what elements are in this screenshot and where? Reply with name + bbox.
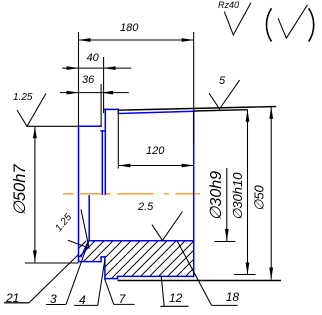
- svg-text:120: 120: [146, 145, 165, 157]
- arrow dia30h10 top: [246, 110, 250, 122]
- housing top surface / extension: [118, 107, 276, 111]
- arrow dia30h9 bottom: [225, 229, 229, 241]
- 18: [178, 242, 212, 306]
- arrow dia50 bottom: [269, 268, 273, 280]
- svg-text:5: 5: [219, 75, 226, 87]
- groove left wall: [101, 131, 103, 194]
- 1.25 top-left symbol: [17, 93, 46, 126]
- sleeve top surface: [118, 111, 193, 113]
- arrow 36 right outside: [101, 91, 113, 95]
- arrow dia50 top: [269, 107, 273, 119]
- dia50h7 dim line: [34, 126, 36, 262]
- dia50 right dim line: [270, 107, 272, 280]
- svg-text:3: 3: [50, 292, 57, 306]
- svg-text:1.25: 1.25: [13, 92, 33, 103]
- groove bottom: [101, 130, 105, 132]
- hatching of section: [19, 220, 260, 290]
- black context part lines: [118, 107, 282, 281]
- ext right x=193.7: [193, 32, 195, 144]
- sleeve bottom surface: [118, 275, 194, 277]
- flange left face: [104, 109, 106, 194]
- 12: [161, 276, 164, 307]
- dia30h10 bottom ext: [234, 274, 256, 276]
- sleeve surface extension right: [194, 110, 248, 111]
- svg-text:∅30h9: ∅30h9: [208, 171, 225, 221]
- arrow 40 left outside: [67, 66, 79, 70]
- arrow 36 left outside: [67, 91, 79, 95]
- dim 180: [79, 39, 194, 41]
- svg-text:40: 40: [87, 52, 100, 64]
- step to sleeve bottom: [117, 276, 119, 278]
- 1.25 rotated symbol (bottom-left): [68, 210, 89, 249]
- svg-text:∅50: ∅50: [252, 184, 267, 211]
- dim 36: [60, 92, 129, 94]
- arrow dia30h10 bottom: [246, 263, 250, 275]
- svg-text:∅50h7: ∅50h7: [11, 164, 29, 216]
- ext for 36: [100, 84, 102, 126]
- bore chamfer: [81, 241, 89, 257]
- flange wall lower: [104, 257, 106, 279]
- svg-text:∅30h10: ∅30h10: [230, 172, 245, 220]
- 5 symbol: [209, 80, 240, 109]
- dia30h9 bottom ext: [215, 241, 236, 243]
- dim 120: [118, 165, 193, 167]
- arrowheads: [33, 38, 273, 279]
- arrow 180 left: [79, 38, 91, 42]
- dia50h7 top ref leader: [27, 125, 79, 127]
- ext x=105.4 for 40: [103, 57, 105, 113]
- flange right face: [117, 109, 119, 113]
- svg-text:12: 12: [169, 291, 183, 305]
- ext left x=78.5: [78, 32, 80, 126]
- 7: [105, 279, 114, 304]
- top-left surface d50: [79, 125, 102, 127]
- bore surface (section): [89, 240, 194, 242]
- dimension & extension lines (black thin): [25, 32, 271, 280]
- arrow 40 right outside: [104, 66, 116, 70]
- arrow 180 right: [182, 38, 194, 42]
- step wall: [100, 257, 102, 262]
- svg-text:4: 4: [79, 293, 86, 307]
- svg-text:18: 18: [226, 290, 240, 304]
- arrow 120 right: [182, 164, 194, 168]
- 2.5 symbol: [152, 212, 183, 241]
- dia30h9 dim line: [226, 168, 228, 241]
- dim 40: [62, 67, 132, 69]
- ext x=118.3 for 120: [117, 109, 119, 168]
- flange bottom: [105, 278, 118, 280]
- dia30h10 dim line: [247, 110, 249, 275]
- arrow 120 left: [118, 164, 130, 168]
- leader lines bottom labels: [4, 242, 238, 307]
- symbol in parentheses: [278, 5, 307, 38]
- 4: [98, 260, 105, 306]
- dia50h7 bottom ext: [25, 262, 79, 264]
- bore end wall: [88, 196, 90, 241]
- bottom-left surface: [79, 261, 102, 263]
- groove bottom mirrored: [101, 256, 105, 258]
- svg-text:2.5: 2.5: [137, 201, 154, 213]
- label underlines: [4, 302, 29, 304]
- housing bottom line: [118, 280, 282, 282]
- centerline (orange dash-dot axis): [63, 193, 201, 195]
- svg-text:Rz40: Rz40: [218, 0, 239, 10]
- Rz40 corner symbol: [224, 3, 251, 35]
- roughness symbols: [17, 3, 307, 248]
- svg-text:180: 180: [120, 22, 139, 34]
- right face: [193, 111, 195, 276]
- arrow dia50h7 bottom: [33, 250, 37, 262]
- 21: [29, 255, 79, 303]
- parentheses around second symbol: [266, 8, 313, 41]
- flange top: [105, 108, 119, 110]
- svg-text:36: 36: [82, 74, 95, 86]
- left face: [78, 126, 80, 261]
- 3: [66, 242, 89, 305]
- part contour (blue): [79, 109, 194, 278]
- arrow dia50h7 top: [33, 126, 37, 138]
